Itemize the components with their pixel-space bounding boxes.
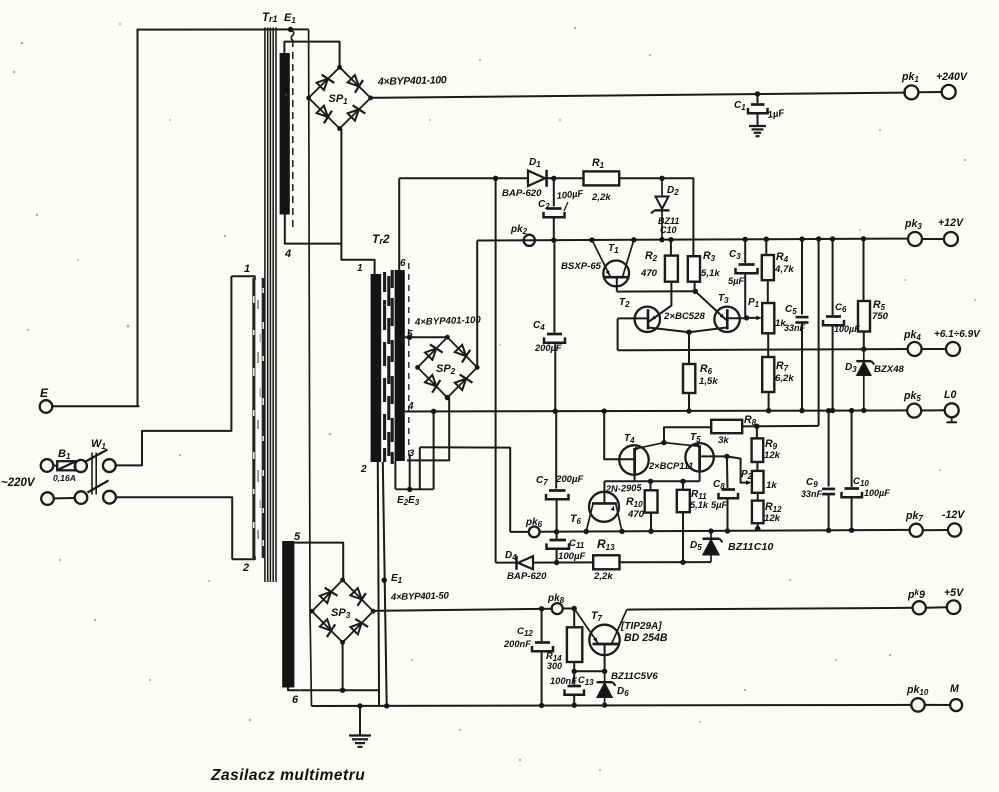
junction SP2 bottom corner bbox=[445, 395, 450, 400]
wire Tr1 terminal 1 horizontal bbox=[231, 276, 254, 280]
transistor T2 bar bbox=[647, 309, 650, 329]
capacitor C2 bbox=[553, 178, 555, 206]
P2 wiper arrow bbox=[746, 480, 752, 485]
svg-text:33nF: 33nF bbox=[784, 323, 806, 333]
wire R2 bottom to T2 base bbox=[649, 282, 671, 322]
svg-text:300: 300 bbox=[547, 661, 562, 671]
bridge SP<tspan font-size="8" dy="2">1</tspan> corner junctions bbox=[337, 65, 342, 70]
svg-text:470: 470 bbox=[640, 268, 658, 279]
terminal pk6 circle bbox=[529, 527, 540, 538]
svg-text:4×BYP401-50: 4×BYP401-50 bbox=[390, 590, 450, 603]
wire W1 lower pole to Tr1 primary 2 bbox=[116, 497, 232, 559]
scan speckles bbox=[21, 42, 24, 45]
svg-text:6: 6 bbox=[400, 258, 406, 269]
transistor T5 collector slant up bbox=[664, 443, 700, 447]
svg-text:0,16A: 0,16A bbox=[53, 473, 76, 483]
transformer Tr1 primary winding left ragged band bbox=[252, 278, 255, 558]
transistor T1 lead left from bus bbox=[592, 240, 611, 277]
wire R11 bottom to R13 line bbox=[682, 512, 684, 562]
transistor T1 circle bbox=[603, 261, 629, 287]
capacitor C10 rail bbox=[851, 411, 853, 487]
svg-text:2,2k: 2,2k bbox=[593, 571, 613, 582]
wire D1 cathode to R1 bbox=[547, 177, 584, 179]
wire T6 collector line bbox=[603, 481, 605, 503]
svg-text:100µF: 100µF bbox=[864, 488, 890, 498]
wire pk1 to +240V terminal bbox=[918, 91, 941, 93]
svg-text:6,2k: 6,2k bbox=[775, 373, 794, 384]
wire E2E3 riser to pk6 line bbox=[419, 447, 421, 489]
junction R7 on L0 bbox=[766, 408, 771, 413]
wire pk5 to L0 terminal bbox=[921, 409, 945, 411]
label 3 (E1 top terminal) bbox=[291, 30, 294, 41]
wire Tr2 terminal 2 down to winding6 wire bbox=[378, 462, 379, 690]
svg-text:Zasilacz multimetru: Zasilacz multimetru bbox=[210, 767, 365, 784]
transformer Tr2 screen dashed line bbox=[408, 263, 410, 458]
junction T3-P1 wiper node bbox=[744, 315, 749, 320]
transistor T5 circle bbox=[685, 443, 713, 471]
svg-text:M: M bbox=[950, 683, 960, 695]
junction C9 bottom bbox=[826, 528, 831, 533]
node E1 screen bbox=[382, 578, 387, 583]
svg-text:4,7k: 4,7k bbox=[774, 264, 794, 275]
transformer Tr1 primary winding interior specks bbox=[257, 300, 259, 309]
transistor T6 right slant to -12V bus bbox=[616, 504, 622, 532]
junction ground on M bus bbox=[357, 703, 362, 708]
wire R1 to D2 node and R3 corner bbox=[619, 178, 693, 256]
+240V bus wire bbox=[371, 93, 906, 98]
capacitor C13 bbox=[573, 671, 575, 684]
bridge SP<tspan font-size="8" dy="2">1</tspan> diode bottom-right bbox=[348, 109, 359, 120]
wire D1 anode node down to D4 bbox=[495, 178, 497, 562]
transformer Tr2 primary bar (1-2) bbox=[371, 274, 382, 462]
transistor T2 left lead bbox=[618, 317, 648, 319]
junction C10 bottom bbox=[849, 528, 854, 533]
junction D5 top bbox=[708, 528, 713, 533]
junction R3 bottom bbox=[693, 289, 698, 294]
wire SP3 right corner to +5V rail bbox=[373, 610, 375, 612]
svg-text:200nF: 200nF bbox=[503, 639, 531, 649]
wire C2 node down to C4 bbox=[553, 240, 555, 332]
bridge SP<tspan font-size="8" dy="2">3</tspan> diode top-left bbox=[320, 592, 331, 603]
transformer Tr1 screen dashed line bbox=[292, 40, 294, 228]
wire 220V upper to fuse bbox=[53, 465, 57, 467]
capacitor C11 bbox=[556, 532, 558, 539]
transistor T6 circle bbox=[589, 492, 619, 522]
bridge rectifier SP<tspan font-size="8" dy="2">3</tspan> outline bbox=[312, 580, 373, 642]
svg-text:100µF: 100µF bbox=[834, 324, 860, 334]
wire R3 bottom bbox=[694, 282, 696, 292]
svg-text:750: 750 bbox=[872, 311, 889, 322]
zener D2 bbox=[661, 178, 663, 196]
wire R6 bottom to L0 bbox=[688, 393, 690, 411]
junction Tr2-2 wire on M bus bbox=[384, 703, 389, 708]
svg-text:5,1k: 5,1k bbox=[690, 500, 709, 510]
resistor R14 bbox=[573, 609, 575, 628]
svg-text:BZ11C5V6: BZ11C5V6 bbox=[611, 671, 658, 682]
transformer Tr2 secondary bar (6-5-4-3) bbox=[395, 270, 405, 461]
+6.1V rail wire bbox=[618, 349, 908, 350]
capacitor C1 bbox=[757, 94, 759, 103]
wire R2 top bbox=[670, 240, 672, 256]
junction C12 top bbox=[539, 606, 544, 611]
bridge SP<tspan font-size="8" dy="2">2</tspan> diode top-left bbox=[425, 348, 436, 359]
transistor T4 bar bbox=[633, 448, 636, 473]
terminal L0 circle bbox=[945, 403, 959, 417]
junction T2T3 common collectors bbox=[686, 330, 691, 335]
junction D4 branch bbox=[493, 176, 498, 181]
junction R12 on -12V bus bbox=[755, 526, 760, 531]
switch W1 mechanical link bbox=[91, 453, 93, 495]
wire R4 top bbox=[765, 239, 767, 255]
transformer Tr1 core laminations bbox=[264, 28, 266, 583]
junction T6 right leg bbox=[619, 529, 624, 534]
terminal +5V circle bbox=[947, 600, 961, 614]
junction dots on +12V bus bbox=[551, 237, 556, 242]
capacitor C12 bbox=[541, 609, 543, 641]
svg-text:2×BC528: 2×BC528 bbox=[663, 311, 705, 322]
wire Tr2 screen E2 stub bbox=[394, 461, 396, 489]
svg-text:BZX48: BZX48 bbox=[874, 364, 905, 375]
L0 bus wire bbox=[405, 410, 908, 411]
wire pk9 to +5V terminal bbox=[926, 606, 947, 608]
bridge SP<tspan font-size="8" dy="2">1</tspan> diode top-left bbox=[317, 79, 328, 90]
wire pk10 to M terminal bbox=[925, 704, 951, 706]
transistor T2 collector slant to common node bbox=[649, 328, 690, 333]
svg-text:5,1k: 5,1k bbox=[701, 268, 720, 279]
transistor T5 bottom lead bbox=[699, 470, 701, 481]
svg-text:100µF: 100µF bbox=[558, 551, 587, 562]
wire Tr2 terminal 6 up to D1 line bbox=[398, 178, 400, 270]
resistor R10 bbox=[650, 481, 652, 490]
junction R11 bottom on R13 wire bbox=[680, 560, 685, 565]
wire winding 6 bottom bbox=[288, 688, 379, 706]
capacitor C8 bbox=[726, 456, 729, 488]
terminal pk5 circle bbox=[907, 404, 921, 418]
wire Tr2 terminal 5 to SP2 top corner bbox=[405, 336, 447, 338]
wire Tr2 terminal 3 to SP2 bottom corner bbox=[407, 398, 449, 460]
resistor R6 bbox=[683, 364, 695, 393]
+5V bus wire left part bbox=[373, 609, 552, 611]
capacitor C5 rail bbox=[801, 239, 803, 314]
transistor T6 left slant to -12V bus bbox=[586, 504, 593, 532]
diode D4 bbox=[518, 556, 533, 569]
transformer Tr1 winding E1 bar bbox=[280, 53, 290, 215]
junction T4T5 common node bbox=[661, 440, 666, 445]
junction C11 bottom bbox=[554, 560, 559, 565]
wire T3 base slant from R3 node bbox=[695, 291, 726, 320]
transistor T3 bar bbox=[726, 309, 729, 329]
svg-text:BAP-620: BAP-620 bbox=[502, 188, 542, 199]
resistor R11 bbox=[682, 481, 684, 490]
bridge SP<tspan font-size="8" dy="2">2</tspan> corner junctions bbox=[445, 335, 450, 340]
lower mid circle bbox=[75, 491, 88, 504]
terminal +240V circle bbox=[942, 85, 956, 99]
svg-text:5: 5 bbox=[294, 531, 301, 543]
wire T5 node to P2 wiper bbox=[727, 456, 749, 482]
bridge SP<tspan font-size="8" dy="2">1</tspan> diode bottom-left bbox=[317, 106, 328, 117]
svg-text:3k: 3k bbox=[718, 435, 729, 446]
switch W1 right upper contact circle bbox=[103, 459, 116, 472]
wire Tr2 screen E3 stub bbox=[409, 455, 411, 489]
svg-text:6: 6 bbox=[292, 694, 299, 706]
junction R10 on -12V bus bbox=[648, 529, 653, 534]
junction D3 on L0 bbox=[861, 408, 866, 413]
junction R11 top bbox=[680, 479, 685, 484]
node E1 top tap bbox=[288, 27, 293, 32]
resistor R7 bbox=[762, 357, 774, 392]
capacitor C7 bbox=[549, 489, 566, 492]
terminal pk10 circle bbox=[911, 698, 924, 711]
fuse B1 bbox=[57, 461, 75, 470]
svg-text:2: 2 bbox=[360, 464, 367, 475]
wire top bus y29.5 bbox=[137, 28, 309, 30]
transistor T3 circle bbox=[714, 307, 739, 332]
svg-text:L0: L0 bbox=[944, 389, 956, 401]
terminal ~220V upper circle bbox=[41, 459, 54, 472]
junction C12 on M bus bbox=[539, 703, 544, 708]
svg-text:12k: 12k bbox=[764, 513, 781, 524]
wire R8 riser to +12V bus bbox=[818, 239, 820, 426]
wire pk6 feed from E2E3 line bbox=[420, 447, 510, 532]
svg-text:1: 1 bbox=[244, 263, 250, 275]
L0 chassis mark bbox=[951, 417, 953, 421]
bridge SP<tspan font-size="8" dy="2">3</tspan> diode bottom-right bbox=[350, 623, 361, 634]
wire E1 top to SP1 top corner bbox=[284, 42, 339, 68]
terminal pk3 circle bbox=[908, 232, 922, 246]
transistor T4 collector slant up bbox=[635, 443, 664, 449]
wire R10 bottom to -12V bus bbox=[650, 513, 652, 532]
wire C4 down to L0 bus bbox=[554, 343, 556, 411]
svg-text:BD 254B: BD 254B bbox=[624, 632, 668, 644]
svg-text:E: E bbox=[40, 386, 49, 400]
transistor T1 bottom lead bbox=[616, 277, 618, 291]
wire C7 down to -12V bus bbox=[556, 500, 558, 532]
ground symbol bars bbox=[349, 734, 371, 736]
transistor T6 emitter arrow bbox=[611, 506, 615, 511]
transistor T2 circle bbox=[635, 307, 660, 332]
junction C6 on L0 bbox=[830, 408, 835, 413]
resistor R3 bbox=[688, 256, 700, 282]
fuse output circle bbox=[75, 460, 87, 472]
wire W1 upper pole to Tr1 primary 1 bbox=[116, 276, 232, 465]
svg-text:+240V: +240V bbox=[936, 71, 968, 83]
wire SP3 bottom corner down to wire 6 bbox=[342, 642, 344, 690]
potentiometer P1 wiper arrow bbox=[747, 317, 760, 319]
wire Tr1 terminal 2 horizontal bbox=[232, 556, 255, 559]
wire common node down to R6 bbox=[688, 332, 690, 364]
wire 220V lower row bbox=[54, 497, 75, 499]
resistor R5 bbox=[863, 239, 865, 301]
transformer Tr1 winding 5-6 bar bbox=[282, 541, 294, 688]
svg-text:BAP-620: BAP-620 bbox=[507, 571, 547, 582]
svg-text:+6.1÷6.9V: +6.1÷6.9V bbox=[934, 329, 981, 340]
terminal pk2 circle bbox=[524, 235, 535, 246]
transformer Tr1 primary winding right ragged band bbox=[262, 278, 265, 558]
wire SP2 right corner up to pk2 bus bbox=[476, 241, 478, 368]
junction C10 top bbox=[849, 408, 854, 413]
transistor T5 right lead bbox=[700, 455, 727, 457]
svg-text:200µF: 200µF bbox=[534, 343, 562, 353]
svg-text:2×BCP111: 2×BCP111 bbox=[648, 461, 693, 471]
wire pk6 left stub bbox=[510, 531, 529, 533]
resistor R4 bbox=[762, 255, 774, 280]
transistor T7 bar bbox=[593, 643, 619, 646]
svg-text:+5V: +5V bbox=[944, 587, 964, 599]
bridge SP<tspan font-size="8" dy="2">2</tspan> diode bottom-left bbox=[425, 375, 436, 386]
transistor T4 circle bbox=[619, 445, 648, 474]
wire L0 to T4 base bbox=[604, 411, 634, 459]
junction R1-D2 node bbox=[659, 176, 664, 181]
wire left riser x137 up to top bus bbox=[137, 30, 139, 407]
terminal -12V circle bbox=[948, 523, 961, 536]
junction C13 top bbox=[572, 669, 577, 674]
svg-text:4×BYP401-100: 4×BYP401-100 bbox=[414, 315, 482, 328]
transistor T7 emitter arrow bbox=[593, 637, 597, 642]
zener D6 bbox=[604, 671, 606, 683]
switch W1 upper arm bbox=[86, 450, 108, 462]
transistor T6 bar bbox=[592, 502, 617, 505]
wire P2 to R12 bbox=[757, 493, 759, 501]
transistor T4 bottom lead bbox=[634, 473, 636, 481]
svg-text:[TIP29A]: [TIP29A] bbox=[620, 621, 662, 632]
wire D4 cathode to R13 bbox=[533, 561, 593, 563]
diode D1 bbox=[528, 171, 545, 186]
svg-text:-12V: -12V bbox=[942, 509, 965, 521]
terminal M circle bbox=[950, 699, 962, 711]
capacitor C6 rail bbox=[832, 239, 834, 315]
wire R4 bottom to P1 top bbox=[767, 280, 769, 303]
transistor T3 emitter arrow bbox=[720, 314, 725, 319]
junction T4 base tap on L0 bbox=[602, 408, 607, 413]
junction R5 on +6V rail bbox=[861, 347, 866, 352]
svg-text:470: 470 bbox=[627, 509, 645, 520]
svg-text:5µF: 5µF bbox=[711, 500, 728, 510]
junction D6 on M bus bbox=[602, 702, 607, 707]
potentiometer P2 bbox=[752, 471, 764, 493]
svg-text:200µF: 200µF bbox=[555, 474, 585, 485]
E2E3 bus bar bbox=[395, 488, 433, 490]
wire R7 bottom to L0 bbox=[768, 392, 770, 411]
+5V bus wire right part bbox=[627, 608, 913, 610]
transistor T2 emitter arrow bbox=[651, 316, 656, 320]
wire P1 bottom to R7 bbox=[767, 333, 769, 357]
junction C9 top bbox=[826, 408, 831, 413]
junction D6 top bbox=[602, 669, 607, 674]
bridge SP<tspan font-size="8" dy="2">3</tspan> corner junctions bbox=[340, 578, 345, 583]
wire T1 emitter to R3 bottom node bbox=[617, 290, 696, 292]
svg-text:1,5k: 1,5k bbox=[699, 376, 718, 387]
resistor R9 bbox=[752, 438, 764, 462]
junction C7 on -12V bus bbox=[554, 529, 559, 534]
bridge SP<tspan font-size="8" dy="2">1</tspan> diode top-right bbox=[348, 75, 359, 86]
svg-text:C10: C10 bbox=[660, 225, 677, 235]
transistor T7 lead left slant bbox=[574, 609, 598, 645]
transistor T5 emitter arrow bbox=[694, 444, 699, 448]
junction E2E3 on L0 bbox=[431, 409, 436, 414]
junction T6 left leg bbox=[584, 529, 589, 534]
bridge rectifier SP<tspan font-size="8" dy="2">1</tspan> outline bbox=[309, 67, 371, 128]
transistor T4 emitter arrow bbox=[635, 447, 640, 451]
junction SP3 bottom on wire 6 bbox=[340, 688, 345, 693]
wire E2E3 riser to L0 bus bbox=[433, 411, 435, 489]
bridge SP<tspan font-size="8" dy="2">2</tspan> diode bottom-right bbox=[455, 379, 466, 390]
wire E1 bottom to SP1 bottom corner bbox=[285, 129, 342, 244]
-12V bus wire bbox=[540, 530, 910, 532]
svg-text:Tr1: Tr1 bbox=[262, 12, 278, 24]
wire pk3 to +12V terminal bbox=[922, 238, 944, 240]
resistor R8 bbox=[711, 420, 742, 433]
transistor T7 bottom lead bbox=[604, 644, 606, 671]
wire D4 to x495 riser bbox=[496, 562, 517, 564]
wire Tr2-6 to D1 anode bbox=[399, 177, 528, 179]
svg-text:+12V: +12V bbox=[938, 217, 964, 229]
switch W1 lower arm bbox=[88, 481, 109, 493]
terminal pk9 circle bbox=[913, 601, 926, 614]
wire R5 bottom to +6V rail bbox=[863, 332, 865, 350]
wire R14 bottom to T7 emitter node bbox=[573, 662, 575, 671]
svg-text:BZ11C10: BZ11C10 bbox=[728, 541, 774, 553]
terminal +12V circle bbox=[944, 232, 958, 246]
+12V bus wire bbox=[477, 239, 908, 241]
wire R13 to D5 bbox=[620, 561, 712, 563]
wire pk4 to +6V terminal bbox=[922, 348, 946, 350]
switch W1 right lower contact circle bbox=[103, 491, 116, 504]
transistor T3 right lead bbox=[727, 317, 746, 319]
svg-text:5µF: 5µF bbox=[728, 276, 745, 286]
svg-text:12k: 12k bbox=[764, 450, 781, 461]
junction C4 on L0 bbox=[553, 409, 558, 414]
capacitor C4 bbox=[547, 333, 562, 336]
svg-text:2: 2 bbox=[242, 562, 249, 574]
terminal pk8 circle bbox=[552, 603, 563, 614]
terminal pk4 circle bbox=[908, 342, 922, 356]
wire Tr2 terminal 1 stub bbox=[372, 260, 375, 274]
wire E1/SP1 node down to Tr2 terminal 1 bbox=[341, 244, 371, 260]
wire R14/C13 to T7 emitter bbox=[574, 670, 604, 672]
transistor T5 bar bbox=[698, 445, 701, 470]
wire T2 emitter to +6V rail bbox=[617, 318, 619, 350]
ground symbol bottom stem bbox=[359, 706, 361, 735]
zener D3 bbox=[863, 349, 865, 363]
svg-text:1: 1 bbox=[357, 263, 363, 274]
junction C5 on L0 bbox=[799, 408, 804, 413]
junction C2 top bbox=[551, 176, 556, 181]
resistor R2 bbox=[665, 256, 678, 282]
ground under C1 bbox=[749, 125, 766, 127]
transistor T1 emitter arrow bbox=[606, 270, 610, 275]
junction R6 on L0 bbox=[686, 408, 691, 413]
resistor R12 bbox=[752, 501, 764, 524]
wire L0 down to C7 bbox=[555, 411, 557, 488]
resistor R13 bbox=[593, 555, 619, 569]
svg-text:4: 4 bbox=[284, 248, 291, 260]
transformer Tr2 core dashes bbox=[383, 272, 386, 292]
capacitor C3 bbox=[744, 239, 746, 263]
terminal ~220V lower circle bbox=[41, 492, 54, 505]
junction R10 top bbox=[648, 479, 653, 484]
long vertical: top bus / SP1 left corner down to M bus bbox=[309, 29, 310, 611]
M bus wire bbox=[312, 705, 912, 706]
wire R12 bottom to -12V bus bbox=[757, 523, 759, 530]
svg-text:2,2k: 2,2k bbox=[591, 192, 611, 203]
wire Tr2 screen E1 down to M bus bbox=[383, 462, 387, 706]
terminal +6.1-6.9V circle bbox=[946, 342, 960, 356]
svg-text:4: 4 bbox=[407, 401, 414, 412]
svg-text:BSXP-65: BSXP-65 bbox=[561, 261, 602, 272]
wire pk8 to T7 node bbox=[563, 608, 575, 610]
bridge SP<tspan font-size="8" dy="2">3</tspan> diode top-right bbox=[350, 588, 361, 599]
wire pk7 to -12V terminal bbox=[923, 529, 948, 531]
